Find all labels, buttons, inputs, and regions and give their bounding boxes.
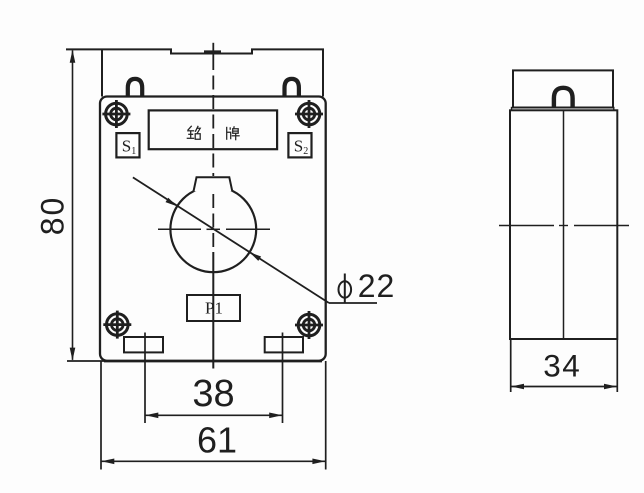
svg-text:34: 34 [543,348,581,384]
svg-text:61: 61 [197,420,237,461]
svg-text:P1: P1 [205,299,223,318]
svg-text:22: 22 [358,268,396,304]
svg-text:38: 38 [192,373,234,415]
svg-text:80: 80 [35,196,71,236]
